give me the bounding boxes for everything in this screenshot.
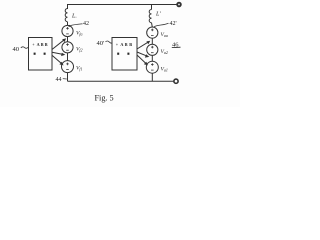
wire L to node (67, 22, 69, 26)
wire Va2 to Va1 (151, 55, 153, 61)
box 40' decoder (112, 38, 137, 71)
control arrow to node Va1 bottom (137, 55, 148, 65)
wire Va1 to bottom rail (151, 73, 153, 81)
inductor L' (149, 10, 151, 23)
polarity marks Vf1 (66, 63, 69, 70)
svg-text:40: 40 (13, 46, 20, 53)
wire bottom rail (68, 80, 174, 82)
leader 40' (106, 41, 113, 43)
svg-text:44: 44 (56, 77, 62, 83)
polarity marks Vf2 (66, 43, 69, 50)
terminal top-right (177, 3, 181, 7)
svg-text:42': 42' (170, 21, 177, 27)
voltage source Vf1 (62, 61, 74, 73)
svg-text:Va1: Va1 (161, 67, 168, 73)
voltage source Va1 (146, 61, 158, 73)
svg-text:+: + (116, 42, 119, 47)
voltage source Vfa (62, 25, 73, 36)
svg-text:B: B (41, 42, 44, 47)
svg-text:B: B (45, 42, 48, 47)
box 40' interior glyphs (116, 42, 132, 55)
svg-text:+: + (32, 42, 35, 47)
control arrow to node Vaa-Va2 (137, 41, 150, 49)
svg-text:B: B (129, 42, 132, 47)
svg-text:Vf1: Vf1 (76, 66, 83, 72)
polarity marks Vaa (151, 29, 154, 36)
wire L' to node (151, 23, 154, 27)
control arrow to node Va2-Va1 (137, 52, 149, 58)
node 42 dot (68, 25, 70, 27)
wire Vfa to Vf2 (67, 37, 69, 42)
voltage source Vf2 (62, 42, 73, 53)
leader 40 (21, 47, 29, 48)
control arrow to node Vf2-Vf1 (52, 52, 65, 56)
svg-text:B: B (125, 42, 128, 47)
wire top rail (68, 5, 178, 10)
box 40 interior glyphs (32, 42, 48, 55)
svg-text:42: 42 (83, 21, 89, 27)
control arrow to node Vfa-Vf2 (52, 38, 66, 49)
wire Vaa to Va2 (151, 38, 153, 44)
svg-text:Va2: Va2 (161, 49, 168, 55)
svg-text:40': 40' (97, 40, 105, 47)
polarity marks Va1 (151, 63, 154, 70)
wire Vf1 to bottom rail (67, 73, 69, 82)
leader 42' (154, 23, 169, 27)
polarity marks Va2 (151, 46, 154, 53)
svg-text:L.: L. (71, 14, 77, 20)
polarity marks Vfa (66, 27, 69, 34)
voltage source Vaa (147, 27, 158, 38)
svg-text:Fig. 5: Fig. 5 (95, 94, 114, 103)
leader 42 (70, 24, 83, 26)
terminal bottom-right (174, 79, 178, 83)
svg-text:L': L' (155, 12, 161, 18)
wire L' top (151, 5, 153, 10)
voltage source Va2 (147, 44, 158, 55)
svg-text:Vf2: Vf2 (76, 47, 83, 53)
svg-text:Vfa: Vfa (76, 31, 83, 37)
box 40 decoder (29, 38, 53, 71)
wire Vf2 to Vf1 (67, 53, 69, 61)
svg-text:A: A (120, 42, 123, 47)
svg-text:Vaa: Vaa (161, 32, 168, 38)
svg-text:A: A (37, 42, 40, 47)
inductor L (65, 9, 67, 22)
control arrow to node Vf1 bottom (52, 55, 64, 65)
